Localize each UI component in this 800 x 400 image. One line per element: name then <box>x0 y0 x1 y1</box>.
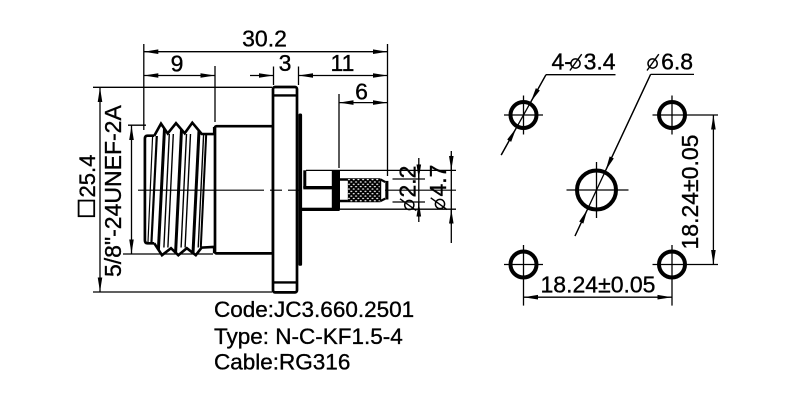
extension line cup top diameter <box>306 169 456 171</box>
extension line flange right <box>298 67 300 86</box>
rear cup left wall <box>303 170 306 188</box>
flange top cap line <box>273 94 297 96</box>
extension line flange bottom <box>93 291 272 293</box>
hole top-left <box>504 96 543 135</box>
svg-text:18.24±0.05: 18.24±0.05 <box>541 272 656 298</box>
extension line cup rim <box>338 94 340 168</box>
hole bottom-left <box>504 245 543 306</box>
leader 4x holes diameter 3.4 <box>501 49 616 156</box>
thread helix thick lines <box>158 129 206 253</box>
dimension 30.2 <box>144 26 388 52</box>
extension line thread bottom <box>123 253 213 255</box>
svg-text:18.24±0.05: 18.24±0.05 <box>677 135 703 250</box>
centerline main axis <box>138 189 456 191</box>
svg-text:3: 3 <box>279 50 292 76</box>
rear gasket plate <box>298 114 302 266</box>
mounting flange side view <box>273 87 297 292</box>
extension line pin bottom diameter <box>393 201 426 203</box>
dimension 3 <box>250 50 291 76</box>
dimension 18.24 vertical <box>677 115 713 265</box>
extension line left end <box>143 44 145 130</box>
svg-text:Type: N-C-KF1.5-4: Type: N-C-KF1.5-4 <box>214 324 403 349</box>
crimp barrel outline <box>340 180 381 202</box>
rear cup bottom wall <box>301 208 340 211</box>
rear cup right rim <box>332 170 340 210</box>
note cable <box>214 350 350 375</box>
extension line flange left <box>273 67 275 86</box>
dimension diameter 4.7 <box>425 151 451 243</box>
svg-text:4.7: 4.7 <box>425 165 451 197</box>
pin taper <box>381 180 386 202</box>
svg-text:Code:JC3.660.2501: Code:JC3.660.2501 <box>214 297 414 322</box>
svg-text:6.8: 6.8 <box>661 49 693 75</box>
hole bottom-right <box>653 245 719 306</box>
extension line flange top <box>93 86 272 88</box>
connector body cylinder <box>215 126 273 253</box>
rear cup inner bottom <box>303 186 332 189</box>
hole top-right <box>653 96 719 135</box>
dimension diameter 2.2 <box>395 158 421 222</box>
svg-text:25.4: 25.4 <box>75 155 100 198</box>
dimension square 25.4 <box>75 88 100 292</box>
svg-text:2.2: 2.2 <box>395 166 421 198</box>
svg-text:30.2: 30.2 <box>242 26 287 52</box>
svg-text:Cable:RG316: Cable:RG316 <box>214 350 350 375</box>
note type <box>214 324 403 349</box>
extension line thread top <box>128 124 146 126</box>
flange bottom cap line <box>273 281 297 283</box>
dimension 18.24 horizontal <box>524 272 672 298</box>
extension line cup bottom diameter <box>340 208 457 210</box>
note code <box>214 297 414 322</box>
pin end cap <box>385 181 388 200</box>
svg-text:3.4: 3.4 <box>584 49 616 75</box>
extension line pin tip <box>387 44 389 176</box>
knurled section <box>348 179 380 202</box>
hole center <box>567 162 629 218</box>
svg-text:4-: 4- <box>552 49 572 75</box>
extension line thread-body step <box>214 66 216 122</box>
svg-text:5/8"-24UNEF-2A: 5/8"-24UNEF-2A <box>100 105 126 277</box>
svg-text:11: 11 <box>331 50 355 76</box>
dimension thread spec 5/8-24UNEF-2A <box>100 105 132 277</box>
dimension 9 <box>144 51 215 77</box>
dimension 6 <box>339 79 388 105</box>
thread helix thin root lines <box>148 134 204 248</box>
svg-text:6: 6 <box>355 79 368 105</box>
dimension 11 <box>299 50 388 76</box>
thread top crest zigzag <box>154 123 214 136</box>
thread bottom crest zigzag <box>154 243 214 255</box>
svg-text:9: 9 <box>171 51 184 77</box>
connector front face <box>145 136 154 244</box>
extension line pin top diameter <box>393 178 426 180</box>
leader center hole diameter 6.8 <box>575 49 694 237</box>
